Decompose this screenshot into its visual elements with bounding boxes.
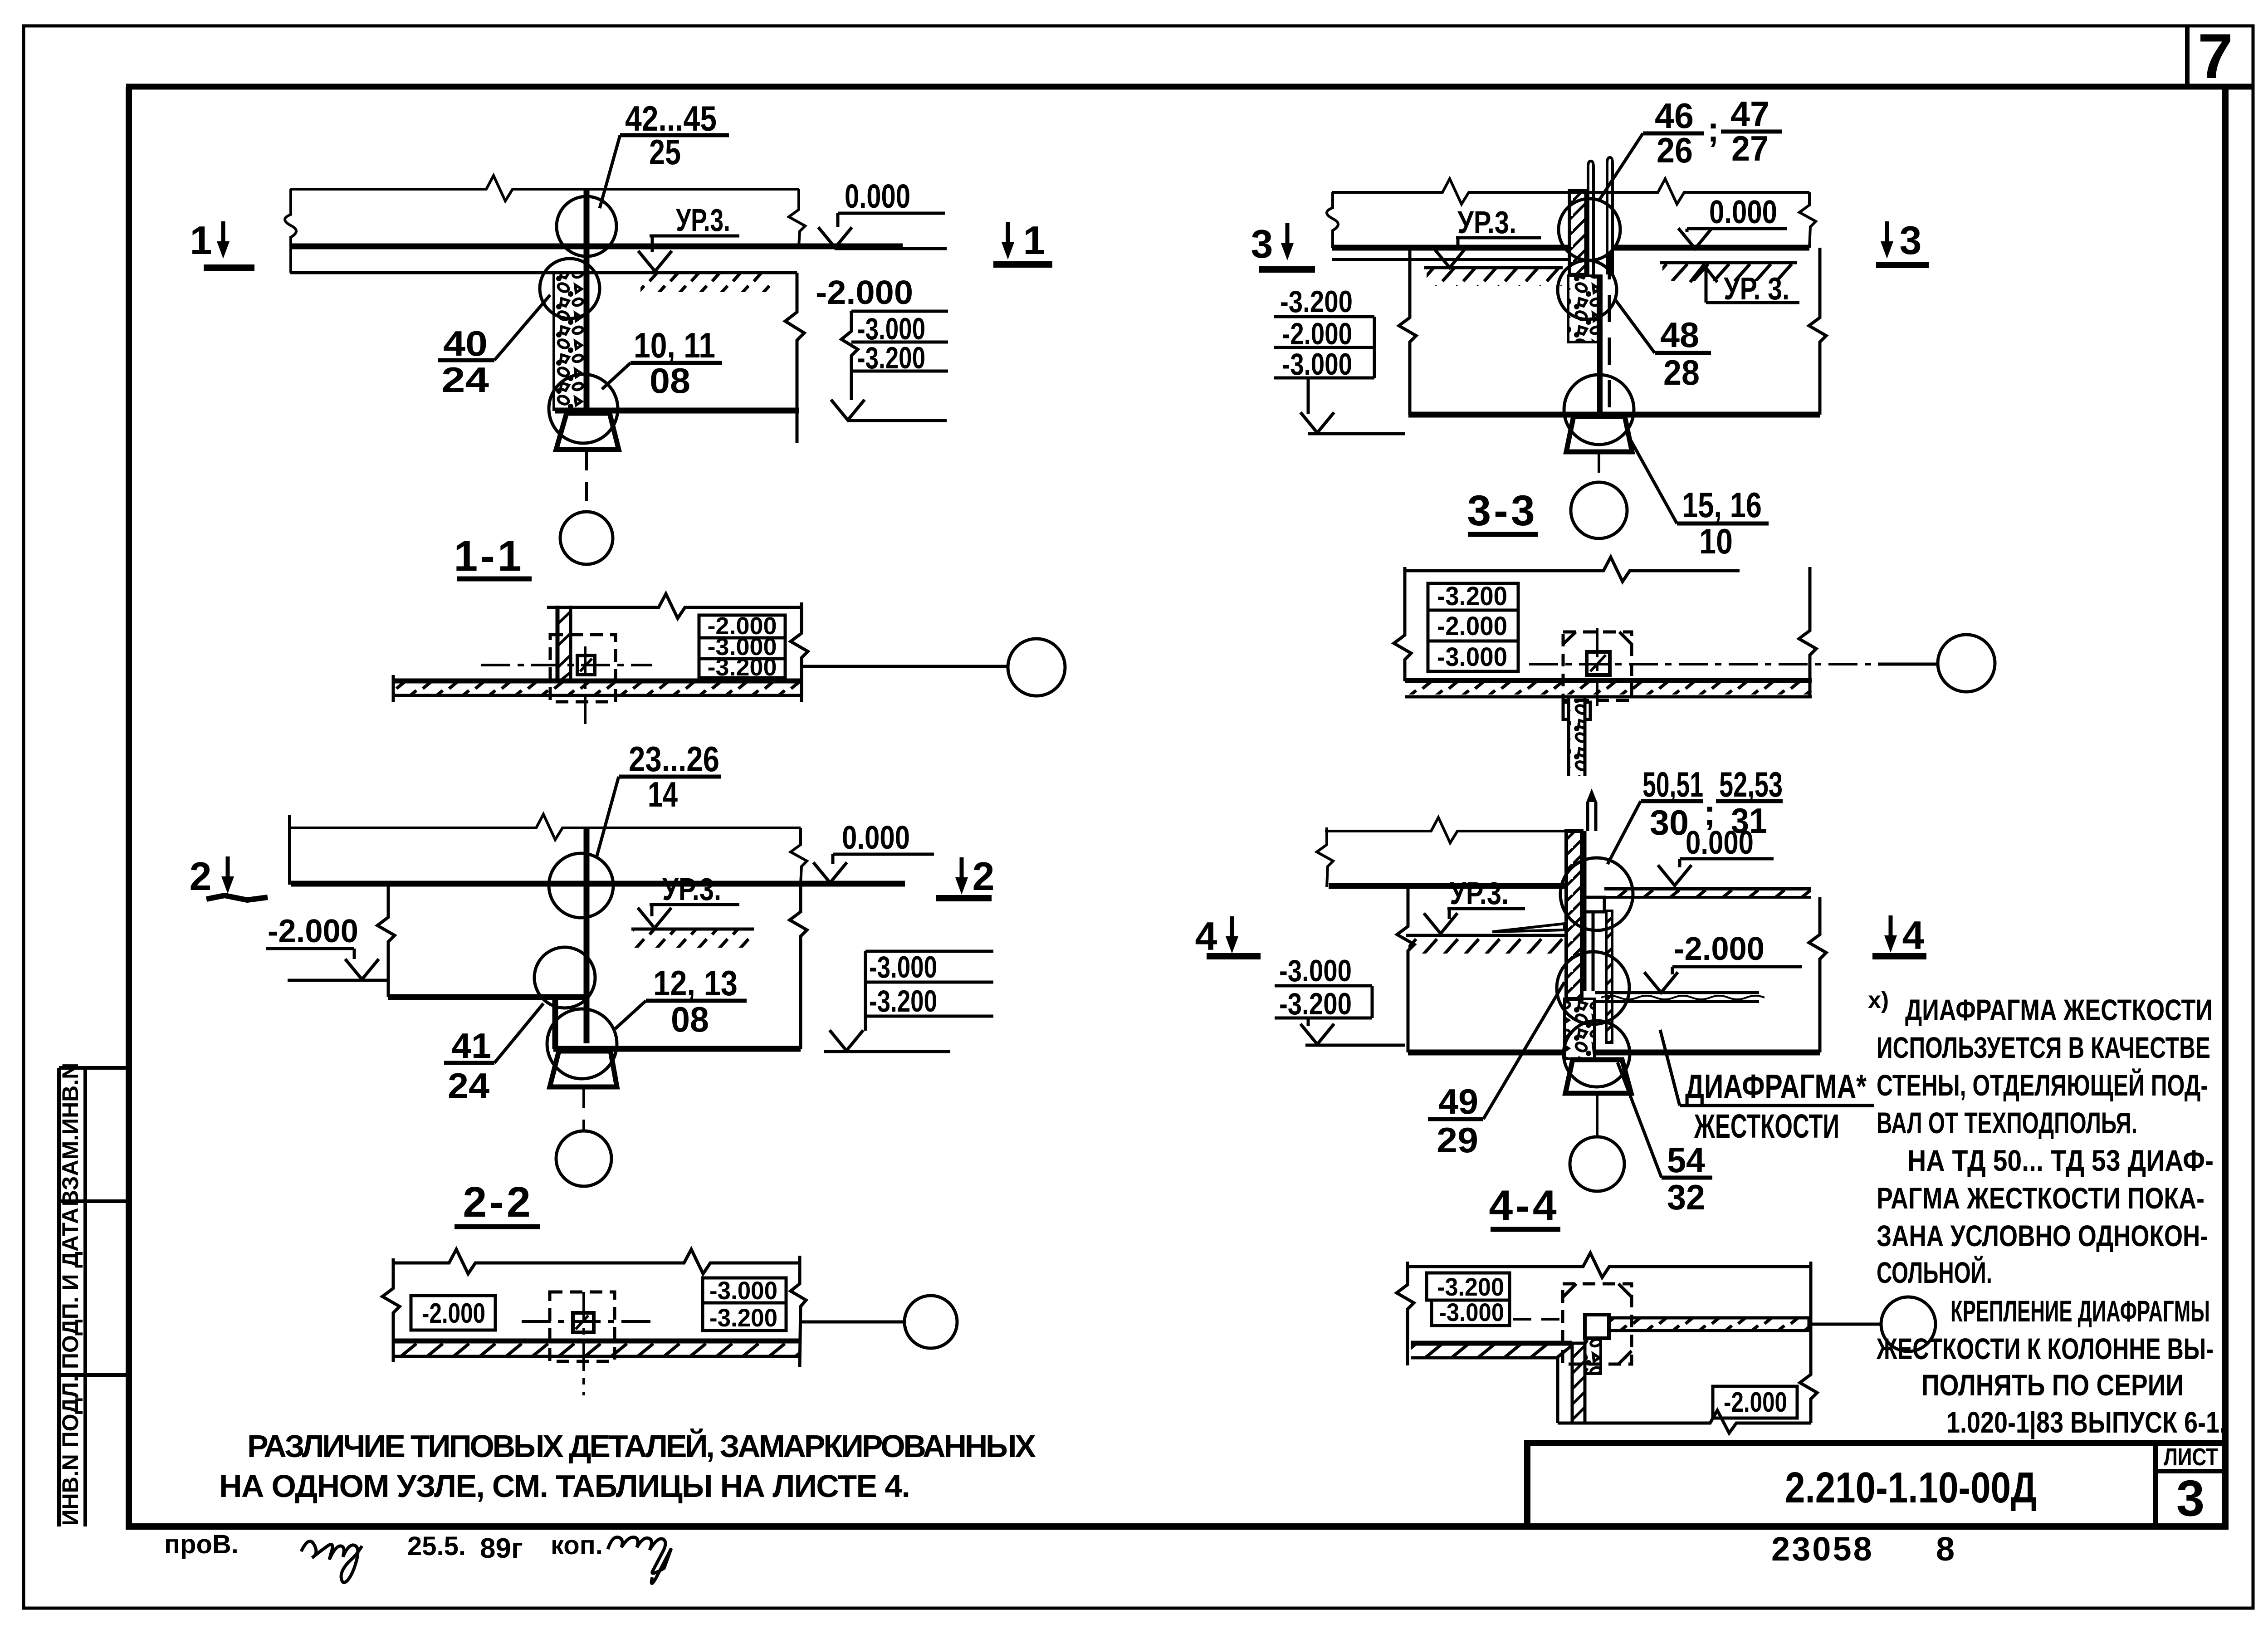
- plan center line horizontal: [1529, 663, 1878, 665]
- svg-text:1: 1: [190, 218, 212, 263]
- plan slab hatch band: [1405, 683, 1812, 695]
- plan left edge with break: [1397, 1262, 1414, 1365]
- slab right tick: [791, 828, 807, 884]
- svg-text:ДИАФРАГМА*: ДИАФРАГМА*: [1685, 1067, 1867, 1105]
- svg-text:08: 08: [671, 999, 709, 1039]
- node reference circle: [1881, 1297, 1936, 1351]
- reference circle: [560, 512, 613, 564]
- svg-text:РАГМА ЖЕСТКОСТИ ПОКА-: РАГМА ЖЕСТКОСТИ ПОКА-: [1877, 1181, 2204, 1215]
- ground line right: [1660, 261, 1797, 264]
- svg-text:НА ТД 50... ТД 53 ДИАФ-: НА ТД 50... ТД 53 ДИАФ-: [1907, 1144, 2214, 1177]
- floor line 0.000 right: [1613, 245, 1809, 251]
- svg-text:проВ.: проВ.: [164, 1530, 239, 1559]
- dowel bars above slab: [1586, 802, 1589, 831]
- plan slab top edge: [393, 1339, 800, 1344]
- column dowel bars: [1588, 161, 1593, 274]
- elevation table right: [703, 1278, 786, 1331]
- svg-text:ЖЕСТКОСТИ К КОЛОННЕ ВЫ-: ЖЕСТКОСТИ К КОЛОННЕ ВЫ-: [1876, 1332, 2214, 1365]
- leader 50,51: [1608, 801, 1641, 864]
- node circle top: [557, 196, 616, 256]
- svg-text:31: 31: [1731, 801, 1767, 841]
- svg-text:ПОДП. И ДАТА: ПОДП. И ДАТА: [58, 1208, 83, 1369]
- plan slab top edge: [1411, 1341, 1572, 1346]
- column square: [577, 656, 595, 675]
- svg-text:КРЕПЛЕНИЕ ДИАФРАГМЫ: КРЕПЛЕНИЕ ДИАФРАГМЫ: [1950, 1294, 2210, 1328]
- column dashed edge: [1608, 252, 1611, 415]
- svg-text:-3.200: -3.200: [1279, 987, 1352, 1021]
- foundation pedestal: [550, 1051, 617, 1087]
- svg-text:1: 1: [1023, 218, 1046, 263]
- plan top line: [1408, 1253, 1811, 1277]
- basement floor line: [555, 408, 799, 414]
- slab bottom / ground line: [290, 271, 797, 274]
- checker signature: [301, 1541, 362, 1582]
- drawing frame bottom: [126, 1523, 2229, 1530]
- page number box divider: [2185, 26, 2190, 87]
- plan slab hatch band: [393, 1343, 800, 1355]
- floor line 0.000: [291, 881, 905, 887]
- svg-text:41: 41: [451, 1026, 491, 1066]
- svg-text:15, 16: 15, 16: [1682, 485, 1762, 525]
- svg-text:УР.3.: УР.3.: [662, 871, 721, 907]
- slab end ticks: [392, 675, 395, 702]
- svg-text:4: 4: [1195, 914, 1217, 959]
- concrete monolith block: [1568, 276, 1598, 342]
- svg-text:-3.000: -3.000: [1439, 1298, 1504, 1326]
- slab top line: [1332, 179, 1809, 204]
- diaphragm panel edge hatched: [1606, 911, 1612, 1042]
- ground hatch: [633, 930, 751, 948]
- svg-text:ЗАНА УСЛОВНО ОДНОКОН-: ЗАНА УСЛОВНО ОДНОКОН-: [1877, 1219, 2208, 1252]
- plan slab bottom edge: [393, 694, 802, 697]
- svg-text:-3.000: -3.000: [869, 950, 937, 984]
- node circle bottom: [549, 374, 618, 443]
- section mark 2 right: [955, 857, 968, 895]
- wall hatch ticks: [557, 612, 571, 683]
- basement left wall edge with break: [1399, 248, 1416, 415]
- svg-text:46: 46: [1655, 96, 1694, 136]
- svg-text:10: 10: [1699, 521, 1733, 561]
- left margin stamp boxes: [59, 1068, 129, 1526]
- node reference circle: [904, 1296, 957, 1348]
- node circle top: [1560, 858, 1633, 930]
- svg-text:2-2: 2-2: [463, 1178, 533, 1226]
- svg-text:2: 2: [973, 854, 995, 899]
- top rule line: [126, 84, 2253, 90]
- basement floor line: [1408, 412, 1820, 418]
- svg-text:;: ;: [1704, 793, 1716, 832]
- dash leader: [1513, 1318, 1560, 1321]
- slab top line: [289, 814, 801, 840]
- column square: [1587, 652, 1610, 675]
- ground line left: [1424, 266, 1563, 269]
- svg-text:0.000: 0.000: [1709, 194, 1777, 230]
- svg-text:52,53: 52,53: [1719, 764, 1783, 804]
- svg-text:СТЕНЫ, ОТДЕЛЯЮЩЕЙ ПОД-: СТЕНЫ, ОТДЕЛЯЮЩЕЙ ПОД-: [1877, 1068, 2208, 1102]
- diaphragm wall: [1566, 831, 1582, 999]
- svg-text:ПОЛНЯТЬ ПО СЕРИИ: ПОЛНЯТЬ ПО СЕРИИ: [1921, 1368, 2184, 1402]
- svg-text:-3.200: -3.200: [1437, 1272, 1504, 1301]
- node circle bottom: [547, 1009, 617, 1079]
- svg-text:3: 3: [1900, 218, 1922, 263]
- svg-text:НА ОДНОМ УЗЛЕ, СМ. ТАБЛИЦЫ НА: НА ОДНОМ УЗЛЕ, СМ. ТАБЛИЦЫ НА ЛИСТЕ 4.: [219, 1468, 913, 1504]
- lower floor line right segment: [1594, 1050, 1820, 1056]
- plan left edge with break: [382, 1258, 400, 1361]
- right area edge with break: [1809, 897, 1826, 1052]
- svg-text:УР.3.: УР.3.: [1450, 876, 1509, 911]
- foundation dashed outline: [1563, 632, 1632, 700]
- plan slab bottom edge: [393, 1355, 800, 1358]
- svg-text:-3.200: -3.200: [869, 984, 937, 1018]
- svg-text:-3.000: -3.000: [1437, 642, 1507, 672]
- right floor slab 0.000: [1604, 887, 1811, 890]
- plan slab hatch band: [1411, 1345, 1572, 1358]
- right wall edge with break: [790, 884, 807, 1049]
- column axis line: [584, 828, 590, 1043]
- column center line: [582, 1089, 585, 1130]
- foundation dashed outline: [550, 635, 616, 702]
- column center line: [585, 451, 588, 510]
- plan right edge with break: [791, 602, 808, 675]
- svg-text:8: 8: [1936, 1530, 1955, 1568]
- leader to node circle: [802, 1321, 904, 1324]
- node circle middle: [1558, 260, 1617, 319]
- svg-text:28: 28: [1663, 352, 1700, 392]
- left area edge with break: [1397, 886, 1414, 1052]
- plan center line horizontal: [522, 1320, 656, 1323]
- reference circle: [1571, 482, 1627, 538]
- plan slab bottom edge: [1411, 1356, 1558, 1360]
- node circle bottom: [1564, 375, 1634, 445]
- basement floor -2.000: [388, 994, 585, 1000]
- svg-text:х): х): [1868, 987, 1889, 1013]
- svg-text:-3.200: -3.200: [709, 1303, 777, 1332]
- elevation box -2.000: [1713, 1386, 1797, 1418]
- plan slab top edge: [1405, 678, 1812, 683]
- svg-text:25: 25: [649, 132, 681, 172]
- svg-text:3: 3: [2176, 1470, 2204, 1526]
- foundation pedestal: [1566, 416, 1632, 452]
- svg-text:;: ;: [1707, 109, 1719, 149]
- node circle top: [549, 853, 613, 918]
- corner ticks: [1563, 632, 1632, 644]
- floor line 0.000 left: [1329, 883, 1566, 889]
- foundation dashed outline: [1563, 1284, 1632, 1364]
- column square: [1585, 1315, 1609, 1338]
- svg-text:-2.000: -2.000: [268, 913, 358, 949]
- svg-text:3-3: 3-3: [1467, 487, 1537, 535]
- svg-text:4: 4: [1902, 913, 1925, 958]
- leader 46: [1599, 133, 1643, 201]
- plan center line vertical: [584, 646, 587, 724]
- svg-text:48: 48: [1660, 315, 1699, 355]
- svg-text:12, 13: 12, 13: [653, 963, 738, 1003]
- svg-text:23...26: 23...26: [629, 739, 719, 779]
- concrete block small: [1585, 1338, 1601, 1374]
- node reference circle: [1938, 635, 1995, 692]
- svg-text:ВАЛ ОТ ТЕХПОДПОЛЬЯ.: ВАЛ ОТ ТЕХПОДПОЛЬЯ.: [1877, 1106, 2137, 1140]
- floor step edge: [552, 997, 558, 1049]
- plan slab top edge: [393, 679, 802, 684]
- svg-text:24: 24: [448, 1066, 489, 1106]
- ground hatch: [640, 274, 772, 292]
- svg-text:УР. 3.: УР. 3.: [1724, 271, 1789, 306]
- wall panel above ground: [1569, 191, 1586, 274]
- svg-text:-3.000: -3.000: [709, 1276, 777, 1305]
- wall below slab: [1563, 697, 1590, 776]
- plan right edge with break: [1799, 567, 1816, 697]
- foundation pedestal: [556, 413, 619, 450]
- svg-text:3: 3: [1251, 221, 1273, 266]
- ground ramp wedge: [1492, 924, 1564, 932]
- basement wall left edge with break: [377, 884, 395, 997]
- reference circle: [1570, 1137, 1624, 1191]
- svg-text:2: 2: [190, 854, 212, 899]
- leader to node circle: [1809, 1323, 1881, 1326]
- basement slab -2.000: [1595, 991, 1759, 994]
- ground line: [1406, 934, 1564, 937]
- wall band vertical: [1572, 1343, 1585, 1423]
- svg-text:4-4: 4-4: [1489, 1182, 1559, 1230]
- svg-text:ЖЕСТКОСТИ: ЖЕСТКОСТИ: [1694, 1107, 1839, 1145]
- section mark 1 right: [1002, 222, 1014, 259]
- svg-text:2.210-1.10-00Д: 2.210-1.10-00Д: [1785, 1463, 2037, 1512]
- floor line 0.000 left: [1332, 245, 1568, 251]
- slab right end vertical with break: [789, 189, 805, 246]
- lower floor line: [553, 1046, 801, 1052]
- svg-text:24: 24: [441, 360, 489, 400]
- column edge lines: [1584, 831, 1587, 991]
- svg-text:26: 26: [1657, 130, 1693, 170]
- svg-text:ИСПОЛЬЗУЕТСЯ В КАЧЕСТВЕ: ИСПОЛЬЗУЕТСЯ В КАЧЕСТВЕ: [1877, 1031, 2210, 1064]
- svg-text:40: 40: [443, 323, 488, 363]
- elevation table: [699, 615, 785, 678]
- elevation box -2.000: [411, 1296, 495, 1330]
- svg-text:-2.000: -2.000: [422, 1298, 485, 1329]
- wall edge thick: [556, 606, 560, 683]
- svg-text:0.000: 0.000: [842, 820, 910, 856]
- plan top line: [1405, 557, 1740, 582]
- lower floor line left segment: [1408, 1050, 1564, 1056]
- plan right edge with break: [791, 1256, 806, 1367]
- node circle middle: [534, 947, 595, 1008]
- plan bottom line: [1558, 1410, 1811, 1433]
- floor line 0.000: [292, 244, 903, 250]
- svg-text:ИНВ.N ПОДЛ.: ИНВ.N ПОДЛ.: [58, 1376, 83, 1526]
- leader to node circle: [803, 665, 1008, 668]
- plan right edge with break: [1800, 1262, 1817, 1423]
- svg-text:-2.000: -2.000: [1437, 612, 1507, 641]
- drawing frame left: [126, 87, 132, 1529]
- node circle middle: [1557, 952, 1629, 1024]
- svg-text:-2.000: -2.000: [1724, 1387, 1787, 1418]
- slab left edge with break: [285, 189, 296, 273]
- svg-text:54: 54: [1667, 1140, 1705, 1180]
- column square: [573, 1313, 594, 1332]
- left lower vertical: [1556, 1358, 1559, 1423]
- svg-text:-3.000: -3.000: [1279, 954, 1352, 988]
- svg-text:1.020-1|83 ВЫПУСК 6-1.: 1.020-1|83 ВЫПУСК 6-1.: [1946, 1405, 2226, 1440]
- plan center line vertical: [582, 1292, 585, 1395]
- svg-text:ВЗАМ.ИНВ.N: ВЗАМ.ИНВ.N: [58, 1063, 83, 1207]
- drawing frame right: [2222, 87, 2229, 1529]
- wall edge thin: [569, 606, 572, 683]
- svg-text:32: 32: [1667, 1177, 1705, 1217]
- basement right wall edge with break: [1809, 248, 1826, 415]
- copier signature: [608, 1537, 671, 1583]
- section mark 4 right: [1884, 915, 1897, 953]
- plan slab hatch band: [393, 683, 802, 695]
- elevation boxes: [1427, 1273, 1510, 1326]
- svg-text:49: 49: [1438, 1081, 1478, 1121]
- svg-text:89г: 89г: [480, 1533, 523, 1564]
- column axis line: [584, 190, 590, 411]
- ground line: [631, 928, 754, 931]
- svg-text:14: 14: [648, 774, 678, 814]
- section mark 3 right: [1881, 221, 1893, 259]
- slab left tick: [1317, 827, 1333, 887]
- title block frame: [1527, 1443, 2225, 1526]
- svg-text:30: 30: [1650, 802, 1689, 842]
- node circle top: [1559, 199, 1620, 260]
- svg-text:1-1: 1-1: [454, 532, 524, 580]
- svg-text:УР.3.: УР.3.: [1457, 205, 1516, 240]
- svg-text:7: 7: [2198, 20, 2233, 92]
- slab left tick: [288, 815, 291, 885]
- node circle middle: [540, 259, 600, 318]
- svg-text:-2.000: -2.000: [1674, 931, 1765, 967]
- svg-text:-3.200: -3.200: [1437, 582, 1507, 611]
- elevation ladder stem: [841, 311, 858, 400]
- right wall edge with break: [785, 273, 804, 443]
- slab bottom line left: [1332, 258, 1568, 261]
- svg-text:УР.3.: УР.3.: [676, 202, 730, 238]
- corner ticks: [1563, 1284, 1632, 1364]
- svg-text:27: 27: [1731, 128, 1769, 168]
- svg-text:08: 08: [650, 361, 690, 401]
- svg-text:0.000: 0.000: [845, 177, 910, 215]
- leader to node circle: [1878, 663, 1938, 666]
- column below: [1597, 274, 1603, 415]
- svg-text:ЛИСТ: ЛИСТ: [2164, 1443, 2218, 1471]
- plan center line horizontal: [481, 664, 652, 666]
- foundation pedestal: [1565, 1060, 1631, 1093]
- plan top line: [393, 1249, 800, 1274]
- svg-text:23058: 23058: [1771, 1530, 1874, 1568]
- column center line: [1598, 454, 1600, 482]
- concrete column body: [554, 273, 587, 410]
- svg-text:47: 47: [1730, 94, 1769, 134]
- right elevation ladder: [865, 950, 993, 953]
- svg-text:-3.200: -3.200: [707, 654, 777, 681]
- svg-text:РАЗЛИЧИЕ ТИПОВЫХ ДЕТАЛЕЙ, ЗАМА: РАЗЛИЧИЕ ТИПОВЫХ ДЕТАЛЕЙ, ЗАМАРКИРОВАННЫ…: [247, 1428, 1039, 1464]
- svg-text:ДИАФРАГМА ЖЕСТКОСТИ: ДИАФРАГМА ЖЕСТКОСТИ: [1905, 993, 2213, 1027]
- svg-text:СОЛЬНОЙ.: СОЛЬНОЙ.: [1877, 1255, 1992, 1289]
- svg-text:50,51: 50,51: [1642, 764, 1703, 804]
- title block ЛИСТ divider: [2153, 1443, 2158, 1526]
- slab right end vertical with break: [1799, 192, 1816, 248]
- svg-text:-3.200: -3.200: [1280, 284, 1353, 319]
- node circle bottom: [1564, 1021, 1630, 1087]
- elevation table: [1428, 583, 1518, 671]
- plan slab bottom edge: [1405, 695, 1812, 699]
- slab top line: [1325, 817, 1566, 843]
- svg-text:-2.000: -2.000: [816, 274, 913, 311]
- node reference circle: [1008, 639, 1065, 696]
- svg-text:25.5.: 25.5.: [407, 1531, 466, 1561]
- plan top line: [547, 594, 802, 618]
- slab end ticks: [392, 1336, 395, 1362]
- slab top line: [290, 176, 799, 201]
- reference circle: [556, 1131, 611, 1186]
- plan left edge with break: [1394, 567, 1411, 681]
- svg-text:29: 29: [1437, 1120, 1478, 1160]
- svg-text:коп.: коп.: [551, 1531, 603, 1560]
- corbel under slab: [1586, 897, 1604, 912]
- plan center line vertical: [1596, 628, 1598, 706]
- slab left edge with break: [1327, 192, 1338, 248]
- svg-text:10, 11: 10, 11: [634, 325, 715, 365]
- foundation dashed outline: [550, 1292, 615, 1361]
- diaphragm band horizontal: [1609, 1318, 1809, 1331]
- concrete block: [1564, 999, 1594, 1059]
